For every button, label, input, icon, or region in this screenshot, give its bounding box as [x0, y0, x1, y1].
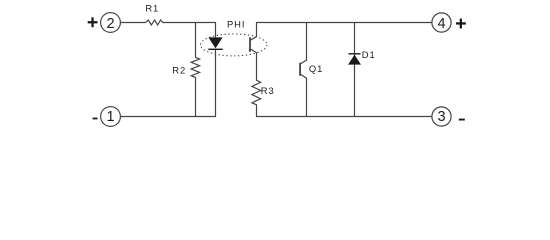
svg-text:R3: R3	[261, 85, 275, 96]
svg-text:Q1: Q1	[309, 63, 323, 74]
svg-text:3: 3	[437, 109, 445, 125]
svg-text:2: 2	[106, 16, 114, 32]
svg-text:R2: R2	[172, 64, 186, 75]
svg-text:D1: D1	[362, 49, 376, 60]
svg-text:4: 4	[437, 16, 445, 32]
svg-text:PHI: PHI	[227, 19, 245, 30]
svg-text:R1: R1	[145, 2, 159, 13]
svg-text:1: 1	[106, 109, 114, 125]
